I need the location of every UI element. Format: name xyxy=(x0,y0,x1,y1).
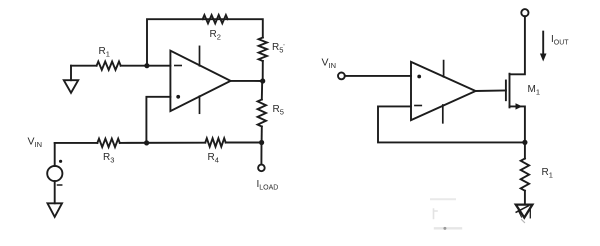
wire: R5 to bottom node xyxy=(261,127,263,143)
resistor R3 xyxy=(97,139,119,147)
svg-text:R5': R5' xyxy=(272,42,285,55)
wire: R3 to R4 xyxy=(120,142,206,144)
svg-text:ILOAD: ILOAD xyxy=(257,179,279,192)
svg-text:VIN: VIN xyxy=(322,57,337,70)
watermark smudge 1 xyxy=(431,198,455,200)
wire: R4 to node D xyxy=(226,142,262,144)
node D (R4 / R5 / load junction) xyxy=(259,140,264,145)
wire: non-inverting input to bottom rail xyxy=(146,97,170,143)
svg-text:R4: R4 xyxy=(208,152,219,165)
wire: node D to load terminal xyxy=(260,143,262,165)
transistor M1 (NMOS) xyxy=(506,16,525,142)
wire: left circuit top feedback wire (R2 loop) xyxy=(147,19,263,65)
wire: node B to R5 xyxy=(261,81,263,100)
resistor R5' xyxy=(259,38,267,62)
op-amp U2 xyxy=(411,61,476,123)
wire: bottom rail VIN to R3 xyxy=(55,142,98,144)
svg-text:M1: M1 xyxy=(528,84,541,97)
resistor R1 (right circuit) xyxy=(521,159,529,191)
terminal IOUT (open circle) xyxy=(521,9,528,16)
node E (source / feedback / R1 junction) xyxy=(522,140,527,145)
voltage source VIN (left circuit) xyxy=(47,143,62,203)
terminal ILOAD (open circle) xyxy=(258,165,265,172)
resistor R5 xyxy=(258,100,266,127)
wire: R5' bottom to output node xyxy=(262,61,264,81)
wire: R1 to ground xyxy=(524,191,526,204)
svg-text:R5: R5 xyxy=(273,104,284,117)
op-amp U1 xyxy=(170,46,230,113)
watermark smudge 2 xyxy=(434,209,438,219)
svg-text:R1: R1 xyxy=(542,167,553,180)
wire: feedback from source node to inverting input xyxy=(378,106,525,142)
svg-text:R3: R3 xyxy=(103,152,114,165)
wire: R1 to inverting input xyxy=(121,65,171,67)
watermark smudge 3 xyxy=(435,227,461,229)
wire: ground to R1 xyxy=(71,65,97,67)
terminal VIN (right circuit, open circle) xyxy=(338,73,345,80)
wire: op-amp output to node xyxy=(231,80,263,82)
resistor R1 (left circuit) xyxy=(97,62,121,70)
node A (R1 / R2 / op-amp inverting input junction) xyxy=(144,63,149,68)
node C (R3 / R4 / non-inverting branch junction) xyxy=(144,140,149,145)
ground (below VIN source) xyxy=(48,203,63,217)
wire: node E to R1 xyxy=(524,142,526,158)
wire: VIN terminal to op-amp + input xyxy=(345,75,411,77)
ground (left circuit input) xyxy=(64,66,78,93)
svg-text:VIN: VIN xyxy=(28,136,43,149)
arrow IOUT xyxy=(540,32,547,62)
svg-text:R1: R1 xyxy=(99,46,110,59)
wire: op-amp U2 output to gate xyxy=(476,90,506,93)
svg-text:R2: R2 xyxy=(210,29,221,42)
ground (right circuit, with watermark overlay) xyxy=(516,205,533,223)
node B (op-amp output / R5' / R5 junction) xyxy=(260,78,265,83)
svg-text:IOUT: IOUT xyxy=(551,34,569,47)
resistor R4 xyxy=(205,138,225,146)
resistor R2 xyxy=(203,15,228,23)
watermark smudge 4 xyxy=(443,227,446,230)
